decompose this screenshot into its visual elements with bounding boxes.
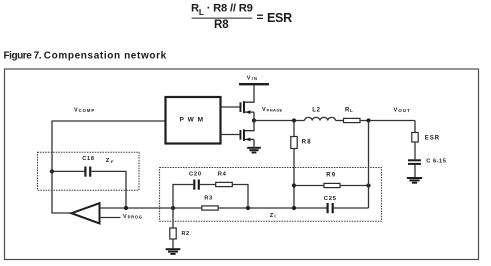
svg-text:OUT: OUT <box>398 108 410 113</box>
label RL <box>345 108 353 114</box>
figure frame <box>5 69 479 260</box>
node R9 left junction <box>292 183 296 187</box>
svg-text:IN: IN <box>252 76 259 81</box>
dashed box ZI <box>160 168 382 222</box>
svg-text:COMP: COMP <box>79 108 96 113</box>
svg-text:R8: R8 <box>214 19 229 31</box>
ground (C6-15) <box>407 177 422 184</box>
node VPHASE label <box>262 107 283 113</box>
wire op-amp inverting input line <box>100 207 328 209</box>
svg-text:V: V <box>262 107 266 113</box>
resistor RL <box>344 118 361 122</box>
wire C20/R4 branch left riser <box>173 185 193 209</box>
svg-text:V: V <box>123 214 127 220</box>
capacitor C25 <box>327 203 334 213</box>
node output branch junction <box>366 118 370 122</box>
capacitor C6-15 <box>408 159 421 165</box>
wire ESR to C6-15 <box>414 142 416 159</box>
wire C6-15 to ground <box>414 165 416 177</box>
svg-text:R2: R2 <box>182 231 190 237</box>
svg-text:Compensation network: Compensation network <box>44 51 167 62</box>
svg-text:V: V <box>247 76 251 82</box>
figure caption <box>4 51 167 62</box>
wire VPHASE to L2 (output line) <box>254 120 305 122</box>
dashed box ZF <box>38 152 140 190</box>
wire R2 drop <box>172 208 174 228</box>
ground (R2) <box>166 248 181 255</box>
svg-text:R4: R4 <box>218 172 227 178</box>
node R3 left junction <box>171 206 175 210</box>
wire C25 right <box>334 207 369 209</box>
node R9 right junction <box>366 183 370 187</box>
wire R9 left <box>294 185 324 187</box>
svg-text:C20: C20 <box>189 172 202 178</box>
transistor Q1 (high-side MOSFET) <box>221 101 255 120</box>
wire output branch riser <box>368 121 370 209</box>
PWM block U2 <box>166 97 221 144</box>
node VPROG label <box>123 214 143 220</box>
node C25 line left junction <box>292 206 296 210</box>
node R4 bottom junction <box>246 206 250 210</box>
node VPHASE junction <box>252 118 256 122</box>
wire R9 right <box>340 185 369 187</box>
node VOUT label <box>394 108 411 114</box>
svg-text:I: I <box>274 213 275 218</box>
node C18 bottom junction <box>124 206 128 210</box>
wire R2 to ground <box>172 239 174 248</box>
resistor ESR <box>412 133 418 143</box>
resistor R9 <box>324 183 340 187</box>
wire C20 to R4 <box>200 184 216 186</box>
resistor R2 <box>170 228 176 239</box>
node C18 tap junction <box>50 169 54 173</box>
wire op-amp VPROG input <box>100 217 121 219</box>
svg-text:L2: L2 <box>312 108 320 114</box>
svg-text:R3: R3 <box>204 196 213 202</box>
svg-text:ESR: ESR <box>267 11 292 25</box>
label ZF <box>106 158 114 164</box>
node VIN label <box>247 76 259 82</box>
wire R4 right riser <box>232 185 248 209</box>
svg-text:Z: Z <box>106 158 110 164</box>
resistor R4 <box>216 182 233 186</box>
op-amp U1 (error amplifier) <box>72 203 100 223</box>
svg-text:Figure 7.: Figure 7. <box>4 51 42 62</box>
wire VCOMP (PWM output to op-amp) <box>52 121 166 213</box>
wire C18 left <box>52 170 85 172</box>
resistor R8 <box>291 121 297 209</box>
svg-text:Z: Z <box>270 213 274 219</box>
svg-text:C25: C25 <box>324 196 337 202</box>
resistor R3 <box>202 206 218 210</box>
wire VIN bar to Q1 drain <box>244 85 254 102</box>
svg-text:V: V <box>74 108 78 114</box>
wire C18 right down to input line <box>91 171 126 208</box>
svg-text:R9: R9 <box>326 173 336 179</box>
svg-text:C18: C18 <box>82 156 95 162</box>
svg-text:L: L <box>350 108 353 113</box>
svg-text:PHASE: PHASE <box>267 108 283 113</box>
capacitor C20 <box>193 180 200 190</box>
svg-text:V: V <box>394 108 398 114</box>
svg-text:=: = <box>257 10 264 24</box>
formula: ESR equation <box>191 3 292 32</box>
VIN power rail bar <box>239 83 269 85</box>
svg-text:R8: R8 <box>302 140 312 146</box>
capacitor C18 <box>84 167 91 177</box>
wire L2 to RL <box>336 120 344 122</box>
ground (Q2 source) <box>247 147 261 154</box>
label ZI <box>270 213 276 219</box>
wire VOUT down to ESR <box>414 121 416 133</box>
svg-text:PWM: PWM <box>180 117 207 124</box>
wire RL to VOUT corner <box>360 120 415 122</box>
svg-text:ESR: ESR <box>425 136 440 142</box>
node VCOMP label <box>74 108 95 114</box>
transistor Q2 (low-side MOSFET) <box>221 121 255 147</box>
svg-text:C 6-15: C 6-15 <box>426 159 446 165</box>
inductor L2 <box>305 117 336 120</box>
node R8 top junction <box>292 118 296 122</box>
svg-text:PROG: PROG <box>128 215 143 220</box>
